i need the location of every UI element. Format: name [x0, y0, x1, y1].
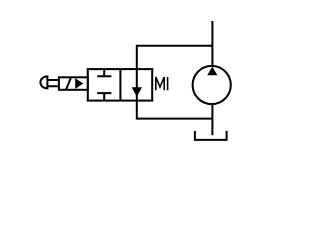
actuator diagonal — [66, 77, 71, 89]
wire pump top vertical — [211, 21, 213, 66]
blocked port T bottom — [97, 93, 111, 101]
flow arrow down — [132, 87, 142, 96]
tank — [195, 131, 227, 140]
wire top horizontal + valve flow vertical + bottom horizontal — [137, 46, 213, 119]
pushbutton head — [40, 76, 47, 88]
pump circle — [193, 66, 231, 104]
actuator triangle — [75, 78, 83, 89]
pump triangle (flow up) — [207, 67, 217, 76]
spring — [156, 77, 164, 90]
pushbutton stem — [47, 80, 59, 86]
valve body 2/2 — [88, 69, 152, 101]
valve divider — [119, 69, 121, 101]
blocked port T top — [97, 69, 111, 76]
wire pump bottom to tank — [211, 104, 213, 135]
actuator box — [59, 77, 88, 90]
spring end bar — [167, 77, 169, 90]
